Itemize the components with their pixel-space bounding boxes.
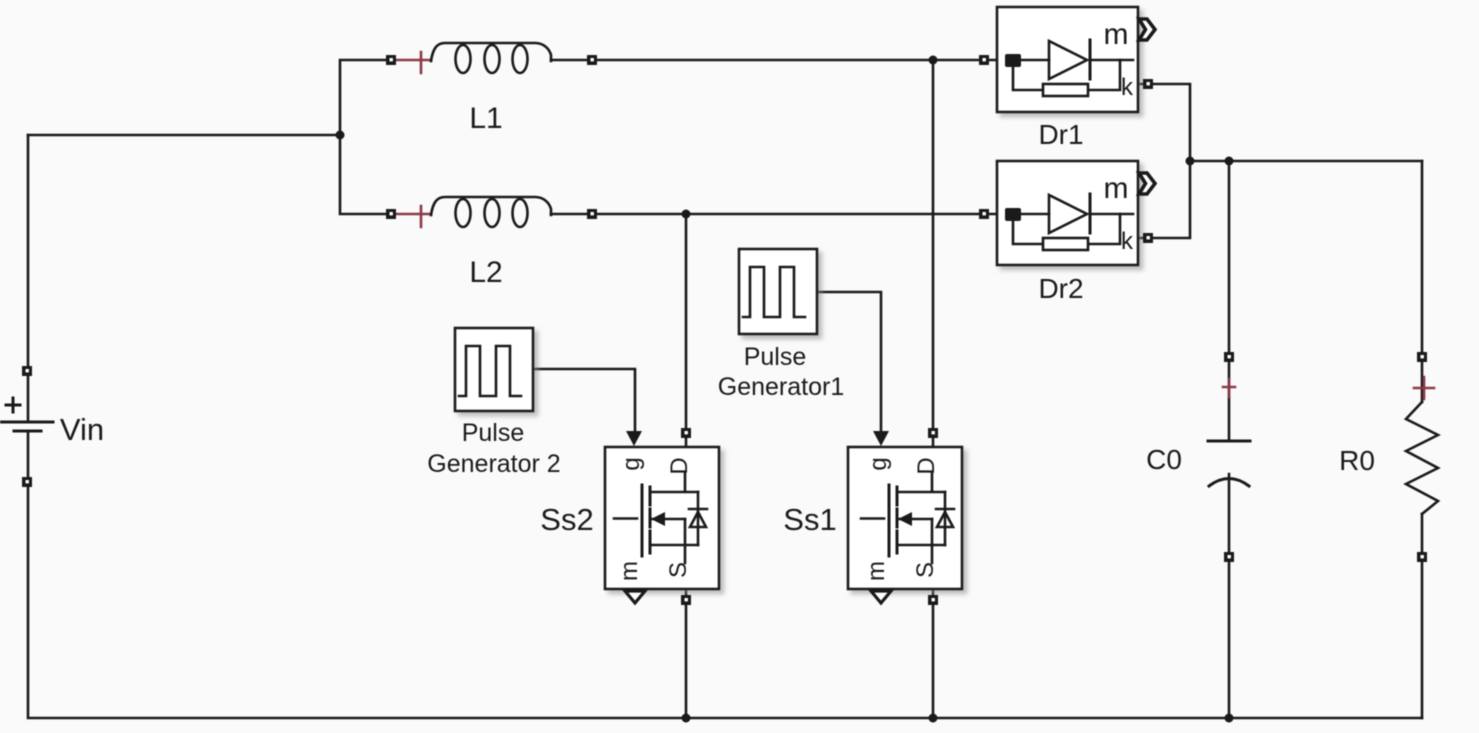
svg-text:g: g [865,457,892,470]
svg-text:Vin: Vin [60,412,104,447]
svg-text:Dr1: Dr1 [1038,119,1083,150]
svg-text:Pulse: Pulse [462,419,525,447]
svg-text:L2: L2 [469,256,502,289]
svg-text:Generator1: Generator1 [718,373,844,401]
svg-text:R0: R0 [1339,445,1375,476]
svg-text:Pulse: Pulse [744,343,807,371]
svg-text:D: D [913,457,940,474]
svg-text:m: m [1104,18,1129,51]
svg-text:Dr2: Dr2 [1038,273,1083,304]
svg-text:C0: C0 [1146,444,1182,475]
svg-text:Generator 2: Generator 2 [427,450,560,478]
svg-text:m: m [863,561,890,581]
svg-text:S: S [912,562,939,578]
svg-text:Ss1: Ss1 [783,502,836,537]
svg-text:Ss2: Ss2 [540,502,593,537]
svg-text:L1: L1 [469,102,502,135]
svg-text:k: k [1121,74,1134,101]
